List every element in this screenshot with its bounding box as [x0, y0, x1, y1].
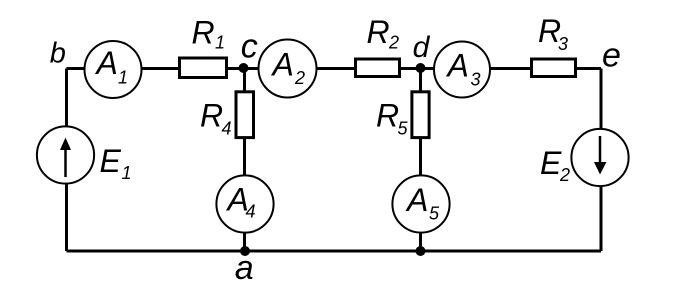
svg-text:b: b — [50, 37, 66, 69]
svg-text:R: R — [367, 14, 390, 50]
svg-text:5: 5 — [429, 204, 440, 224]
svg-text:E: E — [540, 145, 562, 181]
svg-text:2: 2 — [388, 33, 399, 53]
svg-text:3: 3 — [558, 34, 568, 54]
svg-text:5: 5 — [398, 119, 409, 139]
svg-text:A: A — [405, 182, 428, 218]
svg-text:R: R — [200, 98, 223, 134]
svg-text:4: 4 — [222, 119, 232, 139]
svg-text:R: R — [376, 98, 399, 134]
svg-text:2: 2 — [294, 68, 305, 88]
svg-text:3: 3 — [471, 70, 481, 90]
svg-text:1: 1 — [122, 163, 132, 183]
svg-text:a: a — [235, 249, 254, 287]
svg-text:c: c — [241, 28, 258, 66]
svg-text:1: 1 — [215, 33, 225, 53]
svg-text:A: A — [95, 45, 118, 81]
svg-text:E: E — [100, 143, 122, 179]
svg-text:1: 1 — [118, 68, 128, 88]
svg-text:4: 4 — [246, 202, 256, 222]
svg-text:A: A — [446, 48, 469, 84]
svg-text:e: e — [602, 36, 621, 74]
svg-text:R: R — [192, 15, 215, 51]
svg-text:d: d — [413, 31, 431, 64]
svg-text:2: 2 — [559, 165, 570, 185]
svg-text:A: A — [271, 47, 294, 83]
